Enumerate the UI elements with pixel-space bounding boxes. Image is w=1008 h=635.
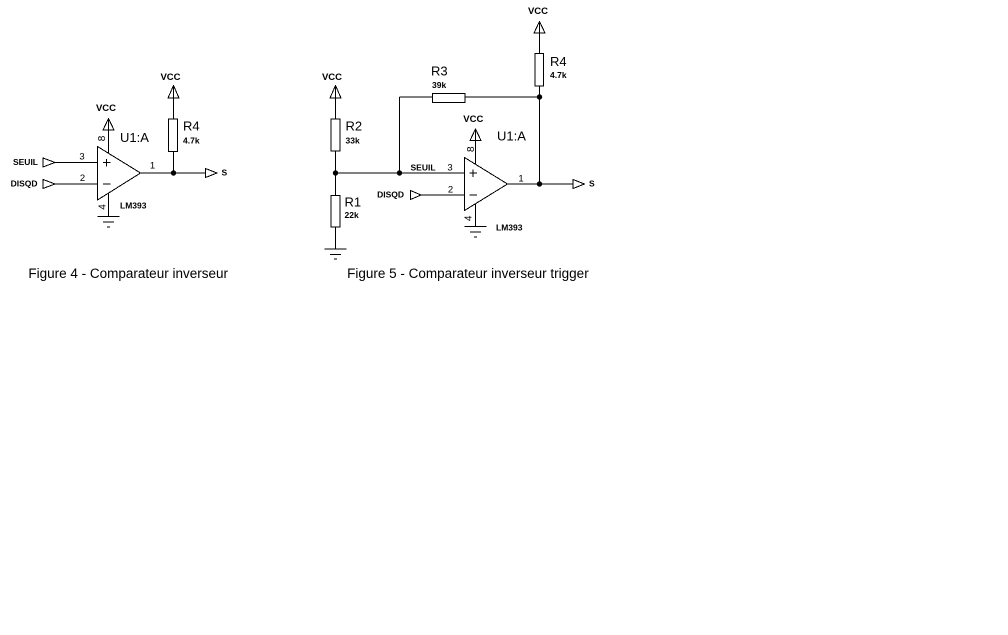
svg-text:39k: 39k	[432, 80, 446, 90]
svg-text:33k: 33k	[346, 136, 360, 146]
svg-text:U1:A: U1:A	[497, 129, 526, 144]
svg-text:R3: R3	[431, 64, 448, 79]
svg-text:R4: R4	[183, 119, 200, 134]
svg-text:22k: 22k	[345, 210, 359, 220]
svg-text:VCC: VCC	[322, 72, 342, 83]
svg-text:R2: R2	[346, 119, 363, 134]
svg-text:Figure 4 - Comparateur inverse: Figure 4 - Comparateur inverseur	[28, 266, 228, 281]
svg-text:VCC: VCC	[463, 114, 483, 125]
svg-text:4: 4	[464, 215, 475, 221]
svg-text:4.7k: 4.7k	[550, 70, 567, 80]
svg-text:LM393: LM393	[496, 223, 523, 233]
svg-text:U1:A: U1:A	[120, 130, 149, 145]
svg-text:VCC: VCC	[160, 72, 180, 83]
svg-text:LM393: LM393	[120, 201, 147, 211]
svg-text:DISQD: DISQD	[11, 179, 38, 189]
svg-text:1: 1	[150, 161, 155, 172]
svg-text:2: 2	[80, 173, 85, 184]
svg-text:SEUIL: SEUIL	[13, 157, 38, 167]
svg-text:VCC: VCC	[528, 6, 548, 17]
svg-text:Figure 5 - Comparateur inverse: Figure 5 - Comparateur inverseur trigger	[347, 266, 589, 281]
svg-text:R1: R1	[345, 195, 362, 210]
svg-text:1: 1	[518, 174, 523, 185]
svg-text:SEUIL: SEUIL	[411, 163, 436, 173]
svg-text:2: 2	[448, 185, 453, 196]
svg-text:8: 8	[466, 146, 477, 152]
svg-text:4: 4	[98, 204, 109, 210]
svg-text:4.7k: 4.7k	[183, 136, 200, 146]
svg-text:S: S	[589, 179, 595, 189]
svg-text:8: 8	[97, 135, 108, 141]
svg-text:R4: R4	[550, 54, 567, 69]
svg-text:3: 3	[79, 152, 84, 163]
svg-text:3: 3	[447, 163, 452, 174]
svg-text:DISQD: DISQD	[377, 190, 404, 200]
svg-text:VCC: VCC	[96, 103, 116, 114]
svg-text:S: S	[222, 168, 228, 178]
